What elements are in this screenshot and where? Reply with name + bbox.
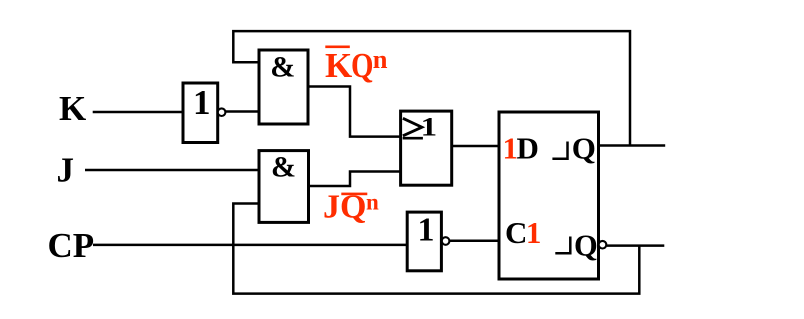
- svg-text:Q: Q: [572, 131, 596, 166]
- svg-text:C1: C1: [505, 215, 540, 250]
- svg-text:Q: Q: [574, 229, 598, 263]
- svg-text:1: 1: [193, 83, 211, 122]
- svg-text:K: K: [59, 89, 86, 128]
- svg-text:&: &: [270, 50, 295, 83]
- svg-text:n: n: [366, 189, 379, 214]
- svg-text:&: &: [271, 150, 296, 183]
- svg-text:CP: CP: [48, 226, 95, 265]
- svg-text:Q: Q: [351, 46, 374, 85]
- svg-text:J: J: [57, 151, 75, 190]
- svg-text:1: 1: [418, 212, 435, 249]
- svg-text:1D: 1D: [503, 131, 538, 166]
- svg-text:n: n: [373, 44, 388, 74]
- svg-text:K: K: [325, 46, 352, 85]
